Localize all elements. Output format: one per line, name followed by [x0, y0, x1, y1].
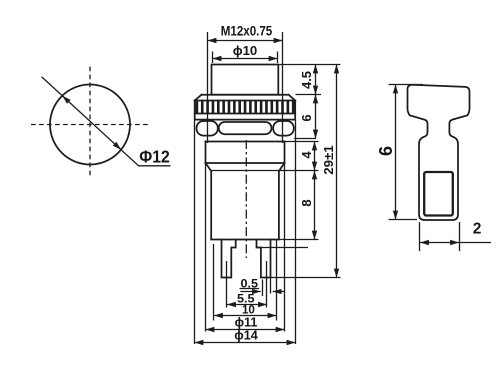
svg-text:ϕ10: ϕ10: [233, 43, 258, 58]
bezel top edge: [202, 94, 289, 96]
dim 4.5: [315, 65, 317, 95]
upper body right side: [284, 142, 286, 164]
label 0.5 underline: [240, 288, 260, 290]
svg-text:6: 6: [299, 114, 314, 121]
ext 4.5 bottom / 6 top: [296, 94, 322, 96]
pin bottom extension to 29 dim: [271, 277, 341, 279]
main body left side: [210, 171, 212, 239]
phi11 extension left: [205, 163, 207, 332]
knurl bottom line: [195, 113, 296, 115]
bezel chamfer right: [289, 95, 296, 101]
phi14 extension right: [295, 120, 297, 345]
right pin outline: [257, 240, 271, 278]
svg-text:2: 2: [473, 221, 482, 238]
phi11 extension right: [284, 163, 286, 332]
chamfer bottom line with extension to 8 dim: [211, 170, 318, 172]
upper body top edge with extension: [206, 141, 285, 143]
ext 6 bottom: [294, 138, 316, 140]
2 extension right: [459, 222, 461, 251]
dim line phi10: [213, 58, 278, 60]
knurling ticks: [197, 101, 293, 114]
dim 6 right view: [395, 85, 397, 220]
dim 0.5 left arrow: [240, 291, 260, 293]
diameter arrowhead upper: [62, 96, 68, 101]
horizontal centerline: [31, 124, 149, 126]
dim line phi14: [195, 342, 296, 344]
dim line 2: [420, 242, 459, 244]
svg-text:4.5: 4.5: [299, 71, 314, 89]
circle front face: [50, 85, 130, 165]
svg-text:ϕ11: ϕ11: [235, 316, 258, 330]
dim 2 tail: [460, 242, 492, 244]
0.5 ext tick: [262, 280, 264, 297]
right pin slot line: [266, 261, 268, 308]
left pin slot line: [226, 261, 228, 308]
ext 6 top: [389, 84, 424, 86]
upper body left side + phi11 extension: [205, 142, 207, 164]
top extension line to 29 dim: [278, 64, 340, 66]
svg-text:6: 6: [376, 146, 396, 156]
left pin outline: [222, 240, 236, 278]
terminal side outline: [408, 85, 470, 220]
main body right side: [278, 171, 280, 239]
nut top band line: [195, 100, 296, 102]
terminal hole: [424, 172, 453, 216]
body bottom edge with extension: [211, 239, 279, 241]
svg-text:4: 4: [299, 151, 314, 159]
washer ball right: [273, 121, 294, 136]
svg-text:ϕ14: ϕ14: [234, 329, 257, 343]
vertical centerline: [89, 67, 91, 177]
dim line M12: [208, 40, 283, 42]
diameter arrowhead lower: [115, 144, 121, 149]
phi10 extension stubs: [213, 52, 278, 64]
chamfer left: [206, 163, 212, 171]
2 extension left: [419, 222, 421, 251]
phi14 extension left: [194, 121, 196, 345]
M12 extension line right: [282, 32, 284, 143]
pin step extension line: [257, 247, 309, 249]
washer ball left: [197, 121, 218, 136]
dim 8: [314, 171, 316, 240]
shoulder line: [206, 162, 285, 164]
chamfer right: [279, 163, 285, 171]
diameter leader line: [42, 77, 171, 166]
svg-text:M12x0.75: M12x0.75: [221, 23, 273, 38]
dim 0.5 right arrow: [273, 291, 285, 293]
M12 extension line left: [207, 32, 209, 143]
dim 6: [315, 95, 317, 139]
dim 29+-1: [336, 65, 338, 278]
ext 6 bottom: [389, 219, 418, 221]
svg-text:8: 8: [299, 199, 314, 206]
dim 4: [314, 142, 316, 171]
washer capsule: [219, 122, 272, 134]
bezel chamfer left: [195, 95, 202, 101]
dim line 10: [214, 315, 277, 317]
svg-text:29±1: 29±1: [321, 145, 336, 175]
button cap: [212, 65, 279, 95]
nut body outline: [195, 101, 296, 120]
10 extension right: [276, 240, 278, 321]
ext of body top to 4 dim: [285, 141, 319, 143]
dim line 5.5: [227, 304, 267, 306]
centerline of body: [245, 140, 247, 258]
ext of body bottom to 8 dim: [279, 239, 319, 241]
dim line phi11: [206, 329, 285, 331]
10 extension left: [213, 244, 215, 321]
pin right edge extension: [270, 278, 272, 294]
svg-text:Φ12: Φ12: [139, 147, 170, 167]
